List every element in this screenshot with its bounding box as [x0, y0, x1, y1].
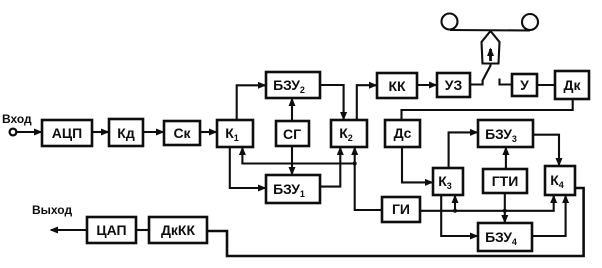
left tape reel: [442, 14, 458, 30]
block Дк: [555, 71, 589, 99]
wire КК to УЗ: [417, 84, 436, 86]
wire К1 bottom to БЗУ1: [230, 147, 265, 188]
tape line: [450, 29, 530, 32]
block Ск: [164, 121, 200, 145]
wire branch to К3 bottom: [454, 196, 456, 211]
block Дс: [385, 120, 420, 147]
wire ГТИ to БЗУ3: [505, 148, 507, 169]
block БЗУ1: [266, 175, 320, 203]
wire БЗУ2 to К2 top: [320, 85, 344, 119]
block УЗ: [437, 73, 470, 97]
svg-text:Вход: Вход: [2, 112, 32, 126]
wire Кд to Ск: [143, 131, 163, 133]
block К1: [217, 120, 253, 147]
junction dot: [453, 209, 457, 213]
wire ГИ left to К2 and К1 bottoms: [355, 148, 382, 210]
block У: [512, 74, 537, 96]
svg-text:ЦАП: ЦАП: [96, 222, 126, 238]
svg-text:ГИ: ГИ: [392, 201, 410, 217]
magnetic head: [482, 31, 500, 64]
svg-text:Дс: Дс: [394, 125, 412, 141]
wire Дк to Дс: [402, 99, 573, 120]
junction dot: [503, 209, 507, 213]
wire Дс to К3: [402, 147, 432, 182]
input terminal circle: [10, 129, 17, 136]
wire К3 to БЗУ3: [449, 132, 477, 168]
wire У to Дк: [537, 84, 554, 86]
wire АЦП to Кд: [92, 131, 108, 133]
wire БЗУ3 to К4 top: [533, 135, 559, 165]
right tape reel: [522, 14, 538, 30]
wire head stub: [489, 64, 491, 67]
block К4: [545, 166, 575, 195]
svg-text:Выход: Выход: [32, 203, 72, 217]
svg-text:КК: КК: [388, 78, 406, 94]
wire ЦАП to output: [51, 229, 87, 231]
svg-text:СГ: СГ: [283, 126, 301, 142]
svg-text:АЦП: АЦП: [52, 125, 82, 141]
wire К1 top to БЗУ2: [237, 85, 265, 120]
wire branch to К1 bottom: [242, 148, 354, 164]
wire К4 to ДкКК feedback: [208, 188, 584, 256]
wire СГ to БЗУ2: [291, 99, 293, 121]
block КК: [377, 73, 417, 98]
block Кд: [109, 119, 143, 146]
block ДкКК: [149, 217, 207, 243]
svg-text:УЗ: УЗ: [445, 77, 463, 93]
svg-text:Кд: Кд: [117, 125, 135, 141]
block БЗУ3: [478, 120, 533, 147]
wire ДкКК to ЦАП: [136, 229, 149, 231]
svg-text:Дк: Дк: [564, 77, 582, 93]
wire К3 to БЗУ4: [441, 195, 477, 236]
wire Ск to К1: [200, 131, 216, 133]
switch arm УЗ to head: [470, 66, 491, 85]
svg-text:ДкКК: ДкКК: [161, 222, 196, 238]
wire ГТИ to БЗУ4: [504, 193, 506, 222]
wire ГИ right to К4 bottom: [420, 196, 554, 211]
svg-text:ГТИ: ГТИ: [492, 173, 519, 189]
block БЗУ2: [266, 72, 320, 98]
svg-text:Ск: Ск: [173, 125, 191, 141]
switch contact to У: [500, 79, 512, 85]
wire БЗУ4 to К4 bottom: [532, 196, 566, 236]
wire input to АЦП: [17, 131, 41, 133]
block ЦАП: [87, 217, 136, 243]
wire К2 top to КК: [357, 85, 376, 120]
wire СГ to БЗУ1: [291, 146, 293, 174]
block СГ: [276, 121, 309, 146]
block АЦП: [42, 120, 92, 146]
block БЗУ4: [478, 223, 532, 251]
block К3: [433, 168, 463, 195]
svg-text:У: У: [520, 77, 529, 93]
block ГТИ: [483, 169, 527, 193]
wire БЗУ1 to К2 bottom: [320, 148, 340, 187]
block ГИ: [382, 197, 420, 222]
block К2: [331, 120, 367, 147]
junction dot: [353, 162, 357, 166]
